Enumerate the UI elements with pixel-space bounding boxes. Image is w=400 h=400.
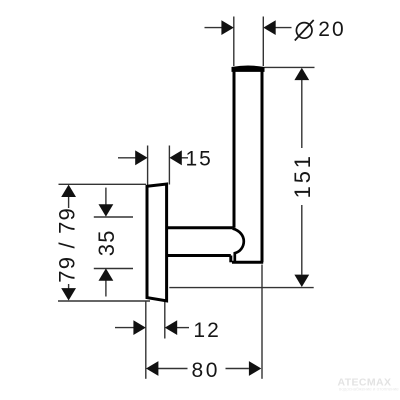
- svg-text:79 / 79: 79 / 79: [55, 207, 80, 283]
- svg-text:20: 20: [318, 18, 345, 41]
- svg-text:80: 80: [192, 359, 221, 382]
- svg-text:12: 12: [193, 319, 220, 342]
- svg-text:35: 35: [94, 229, 119, 256]
- svg-text:водоснабжение и отопление: водоснабжение и отопление: [339, 387, 399, 392]
- svg-text:15: 15: [186, 148, 213, 171]
- svg-text:151: 151: [290, 153, 315, 198]
